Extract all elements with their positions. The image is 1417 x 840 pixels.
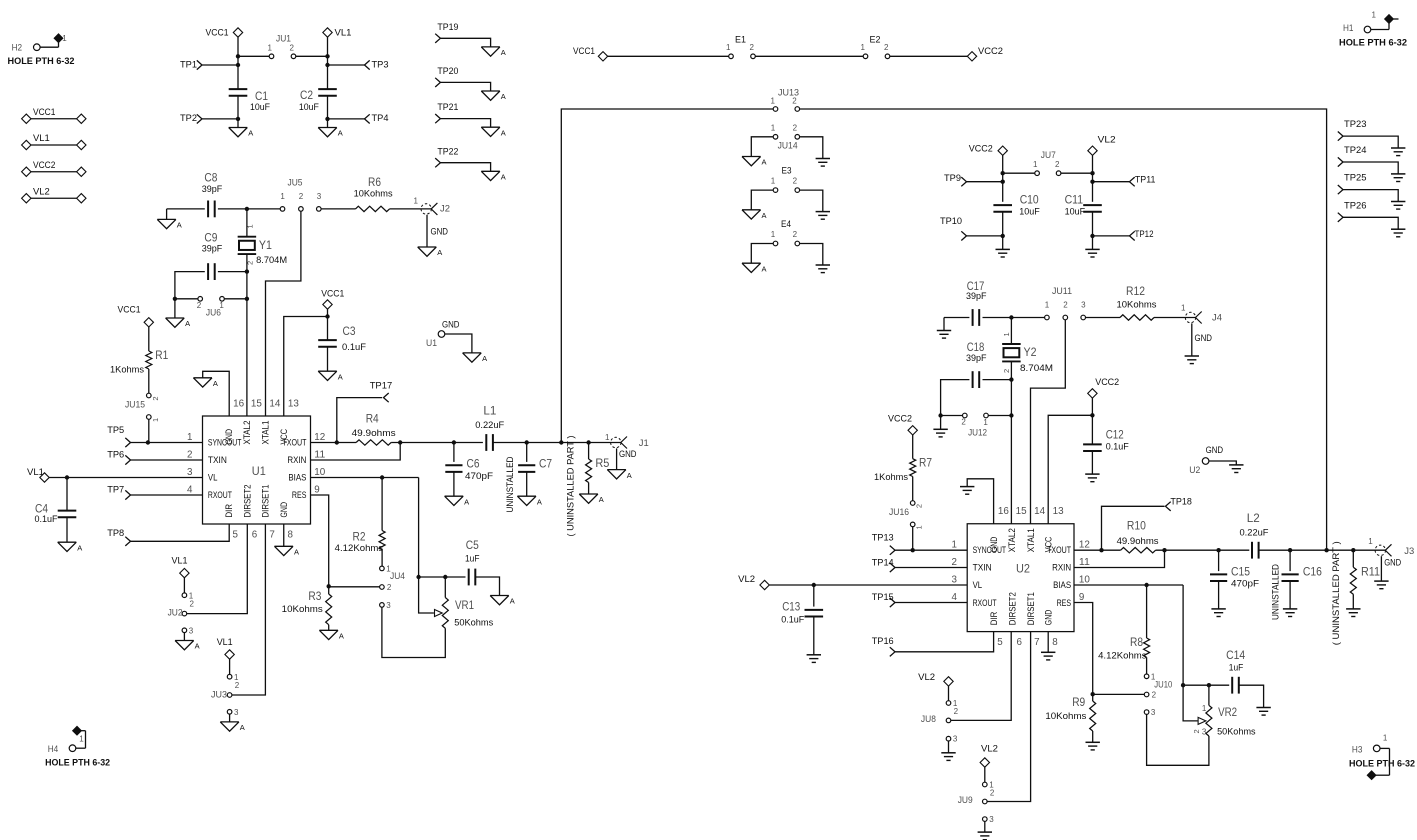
test point TP15 — [872, 592, 968, 607]
mounting hole H4 — [45, 726, 110, 768]
svg-text:UNINSTALLED: UNINSTALLED — [505, 456, 516, 512]
test point TP24 — [1338, 145, 1398, 174]
wire R4 to RXIN node — [391, 440, 454, 444]
test point TP14 — [872, 557, 968, 572]
svg-text:39pF: 39pF — [202, 184, 223, 195]
svg-text:15: 15 — [1016, 506, 1028, 517]
wire JU12 pin2 node — [941, 415, 963, 417]
svg-text:VL2: VL2 — [1098, 135, 1116, 146]
svg-text:3: 3 — [317, 192, 322, 201]
net stub VL2 — [22, 186, 86, 203]
test point TP8 — [107, 524, 229, 546]
svg-text:H1: H1 — [1343, 23, 1354, 34]
connector J1 — [605, 433, 649, 449]
test point TP19 — [435, 22, 490, 47]
svg-text:0.22uF: 0.22uF — [1240, 528, 1269, 539]
wire JU4 pin3 to VR1 bottom — [382, 607, 445, 658]
svg-text:TP6: TP6 — [107, 450, 124, 461]
svg-text:13: 13 — [288, 398, 300, 409]
svg-text:TP20: TP20 — [437, 66, 458, 77]
analog ground (U1 pin16) — [193, 378, 218, 388]
svg-text:4: 4 — [951, 592, 957, 603]
svg-text:1: 1 — [1383, 734, 1388, 743]
wire ground to C8 — [167, 208, 205, 210]
svg-text:A: A — [240, 723, 245, 732]
net VCC1 (E-row) — [573, 46, 608, 61]
svg-text:1: 1 — [246, 224, 255, 228]
svg-text:470pF: 470pF — [465, 471, 493, 482]
svg-text:C12: C12 — [1106, 428, 1124, 442]
svg-text:4: 4 — [187, 485, 193, 496]
svg-text:1: 1 — [219, 301, 224, 310]
wire J2 to GND — [427, 215, 448, 247]
wire JU9 pin3 to ground — [984, 821, 986, 832]
mounting hole H3 — [1349, 734, 1415, 780]
net VL1 (JU3) — [217, 637, 235, 675]
mounting hole H1 — [1339, 11, 1407, 49]
ground (C16) — [1283, 609, 1297, 617]
svg-text:H3: H3 — [1352, 744, 1363, 755]
wire VCC2 node to JU7 pin1 — [1001, 171, 1036, 175]
svg-text:15: 15 — [251, 398, 263, 409]
wire JU12 ground stub — [940, 416, 942, 430]
jumper JU3 — [211, 673, 240, 717]
wire R6 to J2 — [390, 208, 432, 210]
analog ground (TP20) — [481, 91, 506, 101]
svg-text:A: A — [501, 48, 506, 57]
wire VCC1 node down — [237, 56, 239, 89]
svg-text:2: 2 — [951, 557, 956, 568]
test point TP16 — [872, 632, 994, 657]
capacitor C12 — [1083, 428, 1129, 453]
jumper JU13 — [771, 88, 800, 112]
capacitor C17 — [966, 279, 987, 326]
svg-text:A: A — [762, 264, 767, 273]
net VCC2 (C10 cluster) — [969, 144, 1008, 174]
svg-text:1: 1 — [1202, 704, 1207, 713]
svg-text:VCC1: VCC1 — [573, 46, 595, 57]
svg-text:DIRSET2: DIRSET2 — [1007, 592, 1017, 625]
wire C11 to TP12 node — [1090, 212, 1094, 238]
svg-text:RES: RES — [292, 490, 307, 500]
wire Y1 to C9 node — [245, 254, 249, 274]
capacitor C5 — [465, 538, 480, 585]
analog ground (C8) — [157, 209, 182, 230]
svg-text:49.9ohms: 49.9ohms — [352, 428, 396, 439]
svg-text:2: 2 — [197, 301, 202, 310]
test point TP1 — [180, 60, 240, 71]
ground (TP23) — [1391, 148, 1405, 156]
svg-text:11: 11 — [1079, 557, 1090, 568]
svg-text:R9: R9 — [1072, 695, 1085, 709]
svg-text:VCC: VCC — [279, 429, 289, 445]
wire C14 to ground — [1239, 685, 1264, 707]
wire C9 right to node — [218, 271, 247, 273]
svg-text:U1: U1 — [252, 464, 266, 478]
wire C10 to ground — [1002, 236, 1004, 249]
svg-text:TP23: TP23 — [1344, 119, 1367, 130]
test point TP21 — [435, 102, 490, 127]
jumper JU2 — [168, 591, 195, 635]
wire U1 pin12 (TXOUT) to R4 — [311, 440, 357, 444]
wire JU10 pin3 to VR2 bottom — [1147, 714, 1209, 765]
wire JU6 pin2 node — [175, 298, 198, 300]
svg-text:VR1: VR1 — [455, 598, 474, 612]
crystal Y2 — [1002, 332, 1053, 374]
wire C8 to crystal node — [218, 207, 249, 211]
capacitor C18 — [966, 340, 987, 388]
resistor R9 — [1045, 694, 1095, 742]
analog ground (C3) — [318, 371, 343, 381]
svg-text:C3: C3 — [343, 324, 356, 338]
svg-text:3: 3 — [953, 735, 958, 744]
capacitor C16 — [1282, 550, 1323, 608]
capacitor C1 — [229, 89, 270, 113]
svg-text:1: 1 — [414, 197, 419, 206]
test point TP5 — [107, 425, 202, 447]
svg-text:A: A — [195, 642, 200, 651]
analog ground (JU2) — [175, 641, 200, 651]
net VL2 (U2 pin3) — [738, 574, 967, 590]
capacitor C7 — [518, 443, 552, 497]
svg-text:VCC1: VCC1 — [206, 28, 229, 39]
ground (C12) — [1085, 474, 1099, 482]
analog ground (E4) — [742, 263, 767, 273]
svg-text:1: 1 — [1151, 672, 1156, 681]
wire E1 to E2 — [755, 55, 863, 57]
svg-text:3: 3 — [1081, 301, 1086, 310]
svg-text:JU7: JU7 — [1041, 150, 1056, 161]
svg-text:RXIN: RXIN — [1052, 563, 1071, 573]
svg-text:RES: RES — [1057, 598, 1072, 608]
net VCC2 (R7) — [888, 413, 917, 458]
wire Y2 to C18 node — [1009, 361, 1013, 381]
wire C1 to TP2 node — [236, 96, 240, 121]
wire JU7 pin2 to VL2 node — [1061, 172, 1093, 174]
resistor R12 — [1117, 284, 1157, 320]
svg-text:2: 2 — [792, 96, 797, 105]
svg-text:7: 7 — [269, 529, 274, 540]
capacitor C8 — [202, 171, 223, 218]
ground (TP25) — [1391, 202, 1405, 210]
svg-text:GND: GND — [224, 429, 234, 445]
svg-text:HOLE PTH 6-32: HOLE PTH 6-32 — [8, 56, 75, 67]
svg-text:C16: C16 — [1303, 565, 1322, 579]
test point TP7 — [107, 484, 202, 499]
svg-text:R5: R5 — [595, 456, 609, 470]
svg-text:R4: R4 — [366, 411, 379, 425]
ground (U2 pin16) — [960, 487, 974, 495]
wire ground to C17 — [944, 317, 969, 319]
net VL1 (U1 pin3) — [27, 467, 203, 482]
svg-text:6: 6 — [1017, 637, 1023, 648]
svg-text:2: 2 — [915, 504, 924, 508]
svg-text:J3: J3 — [1404, 546, 1414, 557]
resistor R1 — [110, 348, 169, 376]
svg-text:TP7: TP7 — [107, 484, 124, 495]
svg-text:14: 14 — [1034, 506, 1046, 517]
svg-text:TP12: TP12 — [1135, 229, 1154, 240]
svg-text:A: A — [339, 632, 344, 641]
svg-text:A: A — [501, 173, 506, 182]
wire E4 pin2 to ground — [799, 244, 822, 265]
test point TP20 — [435, 66, 490, 91]
U1 GND pad pin — [426, 320, 472, 353]
svg-text:JU5: JU5 — [288, 177, 303, 188]
svg-text:9: 9 — [1079, 592, 1084, 603]
svg-text:VL1: VL1 — [172, 556, 188, 567]
svg-text:3: 3 — [189, 626, 194, 635]
svg-text:VCC2: VCC2 — [888, 413, 912, 424]
svg-text:VL: VL — [208, 472, 218, 482]
capacitor C6 — [445, 443, 493, 497]
net VCC1 (C3) — [321, 288, 344, 316]
wire JU5 pin2 to U1 pin 14 (XTAL1) — [266, 211, 301, 416]
wire C3 to ground — [327, 347, 329, 372]
wire BIAS down to wiper — [1181, 585, 1198, 721]
svg-text:A: A — [294, 548, 299, 557]
svg-text:1: 1 — [1002, 332, 1011, 336]
svg-text:C6: C6 — [467, 457, 480, 471]
label ( UNINSTALLED PART ) left — [565, 436, 576, 537]
wire C5 row — [419, 575, 466, 579]
wire VCC2 node down — [1002, 173, 1004, 202]
svg-text:TP5: TP5 — [107, 425, 124, 436]
connector J3 — [1368, 537, 1414, 557]
svg-text:E1: E1 — [735, 35, 746, 46]
wire L1 to C7 node — [493, 440, 564, 444]
net VCC1 (R1) — [118, 305, 154, 352]
svg-text:9: 9 — [314, 485, 319, 496]
wire crystal node to JU5 pin1 — [247, 208, 281, 210]
svg-text:2: 2 — [299, 192, 304, 201]
svg-text:2: 2 — [1055, 160, 1060, 169]
svg-text:TP19: TP19 — [437, 22, 458, 33]
svg-text:2: 2 — [1192, 729, 1201, 733]
svg-text:C11: C11 — [1065, 193, 1084, 207]
svg-text:TP8: TP8 — [107, 528, 124, 539]
svg-text:1uF: 1uF — [1229, 663, 1244, 674]
test point TP2 — [180, 113, 238, 124]
svg-text:0.1uF: 0.1uF — [781, 614, 804, 625]
svg-text:2: 2 — [1063, 301, 1068, 310]
svg-text:1: 1 — [951, 540, 956, 551]
svg-text:2: 2 — [990, 788, 995, 797]
U2 pin numbers — [951, 506, 1090, 648]
svg-text:E2: E2 — [870, 35, 881, 46]
test point TP26 — [1338, 200, 1398, 229]
wire VCC1 to E1 — [608, 55, 729, 57]
svg-text:2: 2 — [235, 681, 240, 690]
svg-text:TXIN: TXIN — [208, 455, 227, 465]
wire U2 pin9 (RES) down — [1074, 603, 1095, 697]
svg-text:VR2: VR2 — [1218, 705, 1237, 719]
svg-text:39pF: 39pF — [966, 353, 987, 364]
svg-text:DIRSET1: DIRSET1 — [1026, 592, 1036, 625]
svg-text:L2: L2 — [1247, 511, 1260, 525]
svg-text:J2: J2 — [440, 203, 450, 214]
svg-text:JU11: JU11 — [1052, 286, 1072, 297]
svg-text:BIAS: BIAS — [1053, 580, 1071, 590]
wire JU11 pin3 to R12 — [1085, 317, 1120, 319]
wire C18 left down to JU12 — [938, 380, 969, 418]
svg-text:2: 2 — [151, 396, 160, 400]
ground (C17) — [937, 318, 951, 339]
wire VCC1 node to JU1 pin1 — [236, 54, 270, 58]
wire C11 to ground — [1092, 236, 1094, 249]
ground (JU14) — [816, 159, 830, 167]
svg-text:5: 5 — [997, 637, 1003, 648]
wire U2 pin16 to ground — [967, 479, 993, 524]
svg-text:16: 16 — [233, 398, 245, 409]
capacitor C10 — [993, 193, 1040, 218]
jumper E3 — [771, 165, 800, 192]
svg-text:TP25: TP25 — [1344, 173, 1367, 184]
svg-text:10Kohms: 10Kohms — [1045, 711, 1086, 722]
svg-text:39pF: 39pF — [202, 244, 223, 255]
svg-text:10uF: 10uF — [1019, 207, 1040, 218]
svg-text:2: 2 — [793, 123, 798, 132]
svg-text:49.9ohms: 49.9ohms — [1117, 536, 1159, 547]
svg-text:GND: GND — [1044, 610, 1054, 626]
analog ground (U1 pin8) — [274, 546, 299, 556]
test point TP11 — [1093, 175, 1156, 187]
svg-text:1: 1 — [983, 418, 988, 427]
wire JU8 pin3 to ground — [948, 741, 950, 753]
svg-text:1: 1 — [62, 34, 67, 43]
U1 right pin names — [282, 437, 306, 500]
inductor L1 — [475, 403, 504, 451]
test point TP23 — [1338, 119, 1398, 148]
svg-text:1: 1 — [726, 43, 731, 52]
capacitor C9 — [202, 231, 223, 280]
wire JU14 pin1 to analog ground — [751, 137, 773, 157]
U2 left pin names — [973, 545, 1007, 608]
svg-text:1: 1 — [1181, 304, 1186, 313]
resistor R6 — [354, 175, 393, 212]
svg-text:A: A — [762, 158, 767, 167]
analog ground (C2) — [318, 128, 343, 138]
svg-text:JU3: JU3 — [211, 690, 227, 701]
wire JU6 ground stub — [174, 299, 176, 318]
svg-text:2: 2 — [187, 450, 192, 461]
test point TP22 — [435, 146, 490, 171]
svg-text:2: 2 — [387, 583, 392, 592]
svg-text:A: A — [248, 129, 253, 138]
svg-text:VL2: VL2 — [33, 186, 50, 197]
wire C2 to ground — [327, 119, 329, 128]
svg-text:JU14: JU14 — [778, 140, 798, 151]
wire C17 to crystal node — [983, 315, 1014, 319]
U1 top pin names (rotated) — [224, 420, 289, 444]
ground (E4) — [816, 265, 830, 273]
jumper E2 — [861, 35, 890, 59]
resistor R10 — [1117, 519, 1159, 553]
test point TP25 — [1338, 173, 1398, 202]
svg-text:A: A — [501, 92, 506, 101]
net VCC1 (C1 cluster) — [206, 28, 243, 57]
svg-text:GND: GND — [619, 449, 637, 460]
svg-text:JU8: JU8 — [921, 714, 936, 725]
label UNINSTALLED (C16) — [1271, 564, 1282, 620]
svg-text:A: A — [437, 248, 442, 257]
svg-text:10Kohms: 10Kohms — [354, 188, 393, 199]
svg-text:TP15: TP15 — [872, 592, 894, 603]
svg-text:1uF: 1uF — [465, 553, 480, 564]
svg-text:R12: R12 — [1126, 284, 1145, 298]
mounting hole H2 — [8, 34, 75, 67]
wire J4 to GND — [1192, 323, 1212, 355]
svg-text:3: 3 — [951, 575, 957, 586]
analog ground (JU3) — [220, 722, 245, 732]
wire U1 pin9 (RES) down — [311, 495, 331, 589]
svg-text:H2: H2 — [12, 43, 23, 54]
capacitor C15 — [1210, 548, 1259, 609]
svg-text:HOLE PTH 6-32: HOLE PTH 6-32 — [1349, 759, 1415, 770]
resistor R7 — [874, 456, 932, 501]
test point TP18 — [1102, 496, 1192, 550]
net VL2 (C11 cluster) — [1088, 135, 1116, 174]
wire JU3 pin2 to U1 pin7 — [232, 524, 266, 695]
svg-text:VCC2: VCC2 — [978, 46, 1003, 57]
svg-text:13: 13 — [1053, 506, 1065, 517]
resistor R3 — [282, 586, 332, 630]
svg-text:C7: C7 — [539, 457, 552, 471]
svg-text:2: 2 — [961, 418, 966, 427]
svg-text:10: 10 — [314, 467, 326, 478]
wire U1 pin8 to analog ground — [283, 524, 285, 546]
svg-text:1: 1 — [268, 44, 273, 53]
ground (J4) — [1185, 356, 1199, 364]
capacitor C11 — [1065, 193, 1102, 218]
test point TP9 — [944, 173, 1005, 187]
svg-text:2: 2 — [793, 177, 798, 186]
wire JU11 pin2 to U2 pin 14 (XTAL1) — [1031, 320, 1066, 524]
svg-text:10Kohms: 10Kohms — [1117, 300, 1157, 311]
svg-text:A: A — [599, 495, 604, 504]
svg-text:A: A — [482, 354, 487, 363]
wire output bus left (J1 node to JU13) — [561, 109, 773, 443]
svg-text:VL1: VL1 — [217, 637, 233, 648]
wire C9 left down to JU6 — [173, 272, 205, 301]
analog ground (R5) — [579, 494, 604, 504]
resistor R11 — [1350, 550, 1380, 608]
U2 bottom pin names (rotated) — [989, 592, 1054, 625]
svg-text:TP22: TP22 — [437, 146, 458, 157]
svg-text:50Kohms: 50Kohms — [454, 617, 493, 628]
svg-text:1: 1 — [280, 192, 285, 201]
U1 left pin names — [208, 437, 242, 500]
svg-text:TP16: TP16 — [872, 636, 894, 647]
svg-text:16: 16 — [998, 506, 1010, 517]
svg-text:A: A — [510, 597, 515, 606]
wire JU9 pin2 to U2 pin7 — [987, 632, 1031, 802]
svg-text:VCC2: VCC2 — [33, 160, 55, 171]
ground (E3) — [816, 212, 830, 220]
wire JU5 pin3 to R6 — [321, 208, 356, 210]
jumper JU11 — [1045, 286, 1087, 320]
svg-text:U2: U2 — [1189, 465, 1200, 476]
svg-text:BIAS: BIAS — [288, 472, 306, 482]
svg-text:8: 8 — [288, 529, 294, 540]
jumper JU9 — [958, 781, 995, 825]
svg-text:2: 2 — [954, 707, 959, 716]
ground (JU12) — [933, 429, 947, 437]
svg-text:R8: R8 — [1130, 635, 1143, 649]
wire R12 to J4 — [1154, 317, 1196, 319]
svg-text:6: 6 — [252, 529, 258, 540]
analog ground (TP19) — [481, 47, 506, 57]
